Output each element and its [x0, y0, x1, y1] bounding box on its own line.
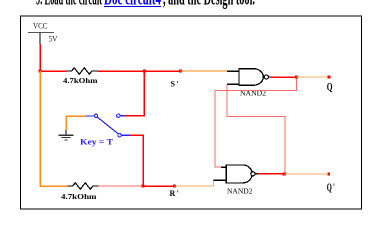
svg-text:9. Load the circuit: 9. Load the circuit	[36, 0, 102, 10]
op NAND gate U2	[221, 165, 257, 183]
junction at switch riser on S' row	[143, 69, 146, 72]
svg-text:Doc circuit4: Doc circuit4	[104, 0, 161, 10]
ground	[59, 116, 74, 140]
wire switch top throw to S' row	[125, 73, 145, 116]
svg-text:5V: 5V	[49, 34, 58, 43]
wire ground to switch pole (orange)	[66, 115, 86, 117]
wire NAND1 output to Q junction	[271, 76, 297, 78]
resistor R2	[68, 183, 99, 189]
wire junction to R' node	[143, 185, 175, 187]
hyperlink underline	[104, 6, 161, 8]
svg-text:4.7kOhm: 4.7kOhm	[61, 192, 97, 201]
terminal dot Q	[328, 76, 331, 79]
node dot R' row color change	[173, 185, 176, 188]
node Q' junction	[283, 172, 286, 175]
wire S' node to NAND1 input (orange)	[180, 70, 227, 72]
svg-text:VCC: VCC	[33, 21, 48, 30]
wire feedback Q to NAND2 top input	[215, 79, 297, 168]
wire R' node to NAND2 (orange with step)	[175, 180, 214, 186]
junction at switch drop on R' row	[141, 184, 144, 187]
wire NAND2 bottom input stub	[214, 179, 227, 181]
switch J1 (SPDT)	[86, 114, 130, 137]
wire Q' junction to terminal (orange)	[284, 173, 327, 175]
terminal dot Q'	[327, 173, 330, 176]
op NAND gate U1	[227, 69, 271, 86]
wire Q junction to terminal (orange)	[297, 76, 328, 78]
wire switch bottom throw to R' row	[130, 135, 144, 184]
node A junction	[38, 69, 41, 72]
svg-text:4.7kOhm: 4.7kOhm	[63, 76, 98, 85]
orange rail node A down to bottom row	[39, 71, 41, 186]
wire NAND1 top input stub	[227, 70, 239, 72]
wire node A to resistor R1	[40, 70, 67, 72]
wire VCC to node A	[39, 45, 41, 72]
node dot S' row color change	[179, 70, 182, 73]
svg-text:Q: Q	[327, 80, 333, 94]
svg-text:R ': R '	[170, 189, 179, 198]
svg-text:Key = T: Key = T	[80, 138, 114, 147]
power VCC	[28, 21, 58, 44]
node Q junction	[295, 75, 298, 78]
svg-text:, and the Design tool.: , and the Design tool.	[163, 0, 255, 10]
wire R2 to R' junction	[99, 185, 144, 187]
canvas border frame	[21, 16, 362, 209]
wire bottom rail corner to resistor R2	[40, 185, 68, 187]
svg-text:S ': S '	[171, 79, 179, 88]
svg-text:Q ': Q '	[327, 180, 335, 194]
wire R1 to S' node	[98, 70, 181, 72]
title text line (cut off at top)	[36, 0, 255, 10]
wire NAND2 output to Q' junction	[257, 173, 284, 175]
wire feedback Q' to NAND1 bottom input	[227, 84, 285, 172]
svg-text:NAND2: NAND2	[227, 188, 253, 196]
resistor R1	[67, 68, 98, 74]
